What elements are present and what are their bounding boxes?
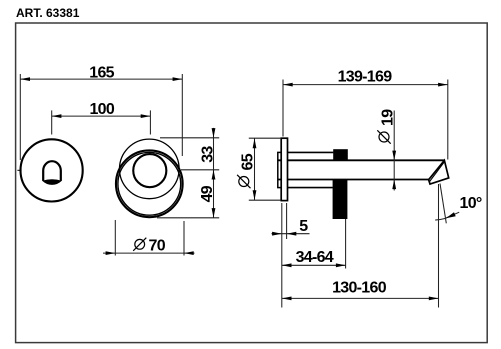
svg-text:100: 100 bbox=[89, 101, 114, 118]
angle 10 slant line bbox=[440, 184, 446, 224]
dim d65 extension bottom bbox=[249, 199, 281, 201]
handle center tick bbox=[17, 169, 21, 171]
angle 10 arrowhead bbox=[446, 212, 456, 218]
bottom clamp block bbox=[333, 179, 348, 219]
dim 33/49 top extension line bbox=[160, 137, 219, 139]
dim 130-160 arrows bbox=[282, 297, 292, 301]
dim 139-169 extension right bbox=[447, 80, 449, 160]
dim 33/49 middle extension line bbox=[181, 169, 219, 171]
spout tip inner diagonal bbox=[430, 162, 444, 181]
dim 5 extension right bbox=[286, 203, 288, 239]
angle 10 arc tick bbox=[435, 218, 445, 220]
dim d19 arrow up bbox=[392, 179, 396, 189]
dim 5 line bbox=[272, 233, 310, 235]
spout thin circle (back rim) bbox=[120, 139, 180, 199]
dim d65 vertical line bbox=[254, 139, 256, 201]
wall plate behind rosette bbox=[278, 152, 283, 187]
dim 49 arrow up at middle bbox=[212, 170, 216, 180]
dim 165 extension line right bbox=[181, 74, 183, 156]
dim 33/49 bottom extension line bbox=[157, 217, 219, 219]
dim 100 extension line left bbox=[51, 110, 53, 134]
svg-text:49: 49 bbox=[199, 185, 216, 202]
dim 165 line bbox=[20, 78, 182, 80]
svg-text:10°: 10° bbox=[460, 195, 482, 212]
spout rosette outer circle d70 bbox=[116, 150, 183, 217]
spout tip polygon bbox=[429, 160, 449, 184]
dim d65 arrows bbox=[253, 139, 257, 149]
svg-text:19: 19 bbox=[380, 109, 397, 126]
svg-text:70: 70 bbox=[149, 237, 166, 254]
lower band line bbox=[283, 187, 333, 189]
svg-text:165: 165 bbox=[89, 65, 114, 82]
spout rosette inner circle d65 bbox=[118, 152, 181, 215]
dim d70 line bbox=[103, 252, 195, 254]
spout tube bottom edge bbox=[278, 179, 429, 181]
dim 165 arrows bbox=[20, 77, 30, 81]
dim 34-64 extension right bbox=[345, 219, 347, 269]
dim d70 extension line left bbox=[114, 220, 116, 256]
dim 139-169 arrows bbox=[283, 83, 293, 87]
spout tube circle bbox=[133, 154, 166, 187]
dim 33/49 vertical line bbox=[213, 128, 215, 218]
dim d70 extension line right bbox=[183, 221, 185, 256]
top clamp block bbox=[333, 149, 348, 161]
dim 34-64 arrows bbox=[282, 263, 292, 267]
dim d19 arrow down bbox=[392, 151, 396, 161]
svg-text:33: 33 bbox=[199, 146, 216, 163]
svg-text:65: 65 bbox=[239, 153, 256, 170]
spout tube top edge bbox=[278, 159, 444, 161]
dim 34-64 line bbox=[282, 264, 346, 266]
dim d65 label bbox=[237, 153, 256, 188]
dim d19 label bbox=[377, 109, 396, 144]
svg-text:130-160: 130-160 bbox=[332, 280, 387, 297]
dim 5 arrows bbox=[272, 232, 282, 236]
dim 5 extension left bbox=[281, 203, 283, 308]
dim 165 extension line left bbox=[19, 74, 21, 160]
dim d70 arrows bbox=[106, 251, 116, 255]
dim 100 arrows bbox=[52, 114, 62, 118]
rosette disc bbox=[281, 138, 287, 200]
dim 100 line bbox=[52, 115, 151, 117]
dim 49 arrow down at bottom bbox=[212, 208, 216, 218]
angle 10 arrow leader bbox=[446, 212, 459, 218]
svg-text:34-64: 34-64 bbox=[296, 249, 334, 266]
svg-text:ART. 63381: ART. 63381 bbox=[16, 6, 80, 20]
dim 139-169 extension left bbox=[282, 80, 284, 137]
dim 130-160 line bbox=[282, 297, 439, 299]
dim 139-169 line bbox=[283, 84, 448, 86]
dim d70 diameter symbol bbox=[135, 239, 145, 249]
handle knob outline bbox=[43, 161, 61, 181]
handle circle (control rosette) bbox=[20, 139, 82, 201]
svg-text:139-169: 139-169 bbox=[338, 69, 393, 86]
dim 130-160 extension right bbox=[438, 184, 440, 308]
upper band line bbox=[283, 151, 333, 153]
handle knob bottom lens bbox=[42, 179, 62, 185]
dim 100 extension line right bbox=[149, 110, 151, 134]
svg-text:5: 5 bbox=[299, 218, 308, 235]
dim d65 extension top bbox=[249, 137, 281, 139]
dim d19 leader line bbox=[393, 111, 395, 191]
dim 33 arrow down (outside above) bbox=[212, 128, 216, 138]
